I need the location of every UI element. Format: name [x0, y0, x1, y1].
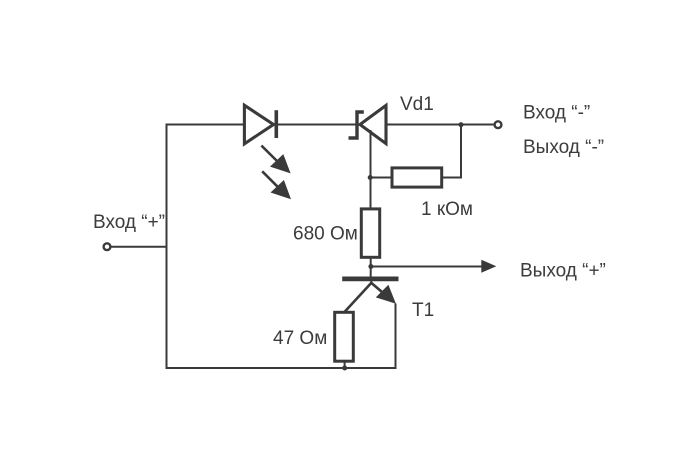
diode LED D1 triangle [244, 105, 273, 144]
wire: output "+" line [371, 266, 483, 268]
svg-text:1 кОм: 1 кОм [421, 199, 473, 220]
junction node: 680 Om / output "+" / base [368, 264, 373, 269]
diode LED D1 cathode bar [274, 110, 278, 138]
svg-text:Выход “-”: Выход “-” [523, 137, 604, 158]
wire: zener cathode tap down [370, 130, 372, 178]
resistor 680 Om [361, 209, 379, 257]
zener diode Vd1 triangle [360, 105, 386, 143]
LED emission arrow 1 [261, 146, 290, 174]
svg-text:680 Ом: 680 Ом [293, 223, 358, 244]
wire: top rail left segment [166, 124, 245, 126]
junction node: zener tap / 1 kOm / 680 Om [368, 175, 373, 180]
wire: 680 Om resistor to transistor base [370, 257, 372, 278]
zener diode Vd1 cathode bar with hooks [349, 112, 364, 138]
svg-text:Вход “+”: Вход “+” [93, 212, 165, 233]
transistor T1 base bar [342, 276, 398, 281]
svg-text:Выход “+”: Выход “+” [520, 261, 606, 282]
wire: 47 Om resistor bottom stub [344, 361, 346, 370]
transistor T1 emitter arrowhead [376, 285, 396, 304]
wire: right leg vertical [395, 304, 397, 370]
arrowhead: output "+" [481, 260, 496, 273]
wire: LED cathode to zener segment [277, 124, 358, 126]
wire: transistor emitter shaft [371, 283, 385, 295]
wire: left vertical rail [166, 124, 168, 370]
svg-text:47 Ом: 47 Ом [273, 328, 327, 349]
wire: node down to 680 Om resistor [370, 178, 372, 210]
svg-text:Т1: Т1 [412, 300, 434, 321]
terminal: input "+" [104, 243, 111, 250]
wire: input "+" lead [111, 246, 168, 248]
junction node: bottom rail / 47 Om [342, 366, 347, 371]
wire: node to 1 kOm resistor [370, 177, 393, 179]
LED emission arrow 2 [262, 171, 291, 199]
terminal: input/output "-" [495, 121, 502, 128]
wire: transistor left leg diagonal [345, 283, 372, 312]
svg-text:Vd1: Vd1 [400, 94, 434, 115]
resistor 1 kOm [392, 168, 442, 187]
svg-text:Вход “-”: Вход “-” [523, 103, 590, 124]
junction node: top rail / 1 kOm [459, 122, 464, 127]
wire: zener anode to terminal segment [386, 124, 495, 126]
resistor 47 Om [335, 312, 354, 361]
wire: bottom rail [166, 367, 396, 369]
wire: 1 kOm resistor to top rail [442, 125, 462, 178]
wire: base bar stub [370, 281, 372, 284]
